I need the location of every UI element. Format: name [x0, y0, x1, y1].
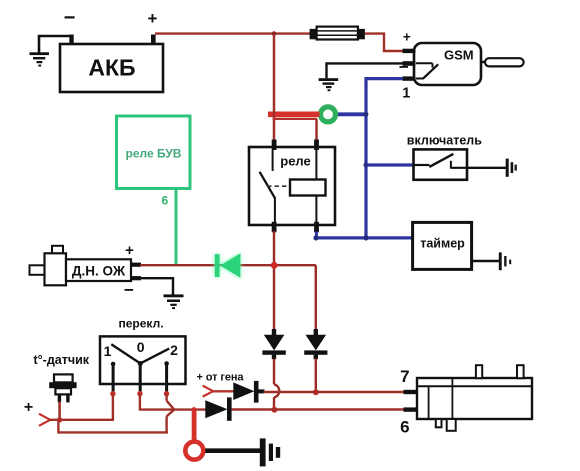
svg-text:АКБ: АКБ: [88, 55, 135, 81]
diode VD3 (right vertical): [304, 329, 327, 359]
red ring terminal: [185, 442, 203, 460]
svg-text:включатель: включатель: [407, 134, 482, 148]
wire: red feed vertical to relay contacts: [273, 35, 317, 149]
node: перекл terminal 2: [164, 391, 169, 396]
chassis ground (main): [260, 438, 280, 466]
svg-text:+: +: [125, 242, 134, 259]
wire: terminal 1 down to +12 bus: [112, 394, 114, 421]
svg-text:GSM: GSM: [444, 48, 474, 63]
wire: t-sensor to +12 bus: [58, 402, 61, 421]
wire: реле БУВ pin 6 (green): [175, 189, 178, 266]
svg-text:6: 6: [400, 418, 409, 437]
wire: terminal 0 down to pin6 bus: [139, 394, 141, 411]
node: junction VD3 / pin7 bus: [313, 389, 319, 395]
antenna: [481, 58, 524, 66]
diode VD5 (lower): [205, 397, 231, 420]
svg-text:+: +: [24, 399, 33, 416]
svg-text:6: 6: [161, 194, 168, 208]
wire: VD3 cathode to pin7 bus: [315, 359, 317, 393]
GSM module U1: [399, 30, 481, 102]
wire: link down to lower bus: [57, 420, 59, 434]
connector X1: [400, 365, 532, 436]
thick red drop wire: [192, 410, 197, 442]
wire: +12 bus: [50, 419, 115, 421]
selector switch S1 перекл: [100, 317, 186, 392]
wire: pin 7 bus: [264, 391, 405, 393]
wire: relay contact down through junction: [273, 231, 275, 330]
current-sensor ring (green): [321, 107, 336, 122]
wire: fuse to GSM + terminal: [365, 34, 404, 51]
node: blue junction relay coil: [313, 235, 318, 240]
temperature sensor B1 t°-датчик: [34, 353, 90, 402]
node: battery feed / relay branch junction: [272, 31, 277, 36]
wire: GSM pin 1 to blue bus: [366, 79, 403, 238]
wire: +12 input arrow: [39, 414, 50, 426]
wire: blue bus to switch включатель: [366, 163, 414, 166]
svg-text:Д.Н. ОЖ: Д.Н. ОЖ: [72, 264, 126, 279]
wire: Д.Н. ОЖ minus to ground: [140, 278, 173, 294]
node: junction VD2 to pin6 bus: [271, 407, 277, 413]
ground (battery negative): [30, 36, 72, 67]
svg-text:таймер: таймер: [420, 237, 465, 251]
wire: right branch down to diode: [315, 265, 317, 330]
fuse F1: [310, 27, 365, 40]
wire: ring to blue bus: [338, 112, 367, 116]
wire: terminal 2 down with chevron hop to lower bus: [167, 394, 175, 434]
node: blue bus junction at ring wire: [364, 112, 369, 117]
battery GB1 АКБ: [60, 7, 163, 92]
coolant sensor Д.Н. ОЖ: [30, 242, 142, 300]
wire: switch to ground: [467, 167, 506, 169]
node: junction t-sensor / +12 bus: [57, 417, 62, 422]
ground (GSM): [319, 63, 403, 91]
svg-text:реле БУВ: реле БУВ: [126, 147, 182, 161]
svg-text:−: −: [64, 7, 76, 29]
thick red link to ring: [268, 112, 320, 118]
svg-text:реле: реле: [280, 154, 311, 169]
svg-text:1: 1: [402, 86, 410, 102]
node: junction sensor line / relay contact: [271, 262, 278, 269]
node: blue junction timer bus: [363, 235, 368, 240]
svg-text:−: −: [124, 281, 134, 300]
ground (Д.Н. ОЖ): [164, 294, 184, 309]
ground (timer, rotated): [499, 252, 511, 270]
svg-text:2: 2: [170, 342, 178, 358]
wire: VD2 cathode down with hop over pin7 bus: [274, 359, 279, 411]
ground (switch, rotated): [506, 159, 517, 177]
node: перекл terminal 0: [137, 391, 142, 396]
switch S2 включатель: [407, 134, 482, 180]
svg-text:+: +: [148, 9, 158, 28]
diode VD4 (+ от гена): [233, 381, 264, 403]
wire: sensor + line to relay junction: [140, 264, 316, 266]
svg-text:+: +: [403, 30, 411, 45]
wire: generator input arrow: [203, 386, 234, 397]
wire: pin 6 bus (right part): [232, 408, 405, 410]
wire: relay coil to timer blue bus: [315, 232, 318, 239]
relay БУВ green box: [117, 116, 191, 208]
wire: timer to ground: [472, 260, 499, 263]
wire: pin 6 bus (left part from перекл 0): [140, 408, 206, 410]
diode VD1 (green): [215, 253, 241, 277]
svg-text:7: 7: [400, 367, 409, 386]
diode VD2 (left vertical): [262, 329, 285, 359]
svg-text:перекл.: перекл.: [119, 317, 164, 331]
svg-text:t°-датчик: t°-датчик: [34, 353, 90, 367]
relay K1: [249, 140, 335, 233]
timer U2: [413, 222, 472, 269]
wire: ring to chassis ground: [205, 448, 260, 453]
svg-text:+ от гена: + от гена: [197, 372, 245, 384]
node: перекл terminal 1: [110, 391, 115, 396]
svg-text:−: −: [399, 58, 409, 77]
svg-text:1: 1: [104, 343, 112, 359]
node: blue junction to switch: [364, 163, 369, 168]
wire: battery + to fuse: [155, 32, 311, 34]
svg-text:0: 0: [137, 339, 145, 355]
wire: lower bus to terminal 2: [58, 431, 167, 433]
